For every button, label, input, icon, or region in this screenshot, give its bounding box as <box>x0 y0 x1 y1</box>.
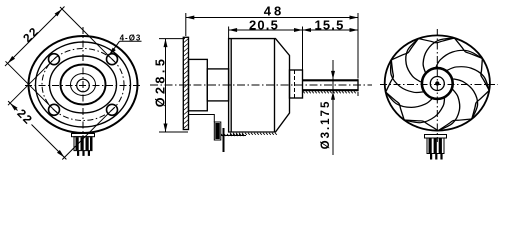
arrow dim 22 top-left SW end <box>6 56 15 65</box>
svg-text:48: 48 <box>264 3 284 18</box>
right hub hidden line <box>294 70 296 98</box>
bolt circle dash-dot <box>42 49 124 121</box>
circle shaft <box>77 79 90 92</box>
bell bottom knurl <box>230 133 277 135</box>
ext 228.6 <box>228 27 230 39</box>
bell chamfer line <box>274 39 276 132</box>
fan blades <box>368 19 505 146</box>
outer circle flange <box>29 36 138 133</box>
circle rim <box>36 42 131 127</box>
bell outline <box>229 39 290 132</box>
wire line <box>221 134 246 136</box>
axis centerline <box>150 84 372 86</box>
hole BR <box>107 104 118 115</box>
shaft bottom <box>303 89 359 91</box>
blade rim scallop <box>472 89 489 121</box>
ext bottom 28.5 <box>159 131 188 133</box>
dimension 22 (bottom-left, TL-BR diagonal) <box>8 57 115 160</box>
ext 302.5 <box>302 27 304 71</box>
dim line 28.5 <box>165 39 167 132</box>
circle bearing <box>71 74 96 96</box>
ext top 28.5 <box>159 38 185 40</box>
centerline vertical <box>82 27 84 146</box>
extension from BR hole to SW <box>62 107 114 159</box>
ext right 48 <box>357 13 359 79</box>
neck <box>207 69 228 101</box>
centerline vertical fan <box>436 29 438 142</box>
arrows dim 20.5 and 15.5 <box>229 28 238 32</box>
circle stator <box>50 56 117 113</box>
connector left view <box>72 134 95 151</box>
arrow dim 22 top-left NE end <box>55 8 64 17</box>
hub center dot <box>435 81 439 85</box>
blade long edge <box>444 64 492 90</box>
fan outer rim <box>385 35 490 130</box>
svg-text:Ø3.175: Ø3.175 <box>320 100 332 150</box>
extension from BL hole to NW <box>6 61 58 113</box>
svg-text:15.5: 15.5 <box>314 18 344 33</box>
flange plate <box>183 37 188 129</box>
hub <box>189 59 208 110</box>
bell left inner line <box>230 39 232 132</box>
wire connector side view <box>189 115 221 141</box>
dim line 48 <box>186 17 358 19</box>
shaft knurl <box>303 91 356 93</box>
dimension 48 <box>186 13 358 96</box>
ext left 48 <box>185 13 187 36</box>
connector fan view <box>425 135 447 154</box>
arrow dim 22 bottom-left SE end <box>57 150 66 159</box>
hole TL <box>49 54 60 65</box>
extension from TR hole to NW <box>60 7 115 62</box>
hole TR <box>107 54 118 65</box>
shaft top <box>303 79 359 81</box>
arrows dim 48 <box>186 16 195 20</box>
dim line 20.5/15.5 <box>229 29 358 31</box>
arrows dim phi3.175 <box>331 71 335 80</box>
hub ring <box>422 68 453 99</box>
dimension 22 (top-left, BL-TR diagonal) <box>5 7 115 113</box>
dimension phi28.5 <box>159 39 188 132</box>
dimension phi3.175 <box>332 60 334 155</box>
extension from TL hole to SW <box>8 57 57 105</box>
svg-text:Ø28.5: Ø28.5 <box>153 56 167 108</box>
arrow dim 22 bottom-left NW end <box>9 102 18 111</box>
dim line 22 bottom-left <box>8 101 17 110</box>
arrow leader 4-phi3 <box>107 48 115 57</box>
right hub <box>290 70 303 98</box>
circle boss <box>61 65 106 105</box>
hub center circle <box>430 77 444 91</box>
centerline horizontal fan <box>380 84 498 86</box>
arrows dim phi28.5 <box>164 39 168 48</box>
dimension 20.5 / 15.5 <box>229 27 358 71</box>
svg-text:20.5: 20.5 <box>249 18 279 33</box>
flange hatch <box>183 39 188 129</box>
centerline horizontal <box>25 85 142 87</box>
hole BL <box>49 104 60 115</box>
shaft end <box>357 79 359 91</box>
dim line 22 top-left <box>5 7 65 67</box>
